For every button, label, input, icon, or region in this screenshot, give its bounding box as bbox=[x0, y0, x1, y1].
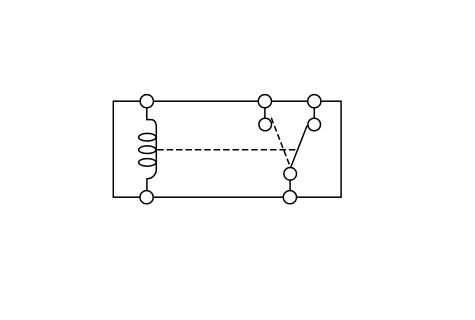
NO contact node bbox=[308, 118, 321, 131]
pin terminal P5 bottom right (common) bbox=[283, 191, 296, 204]
common pivot node bbox=[284, 168, 297, 181]
pin terminal P4 bottom left bbox=[140, 191, 153, 204]
coil L1 loop 1 bbox=[139, 133, 156, 141]
pin terminal P1 top left bbox=[140, 95, 153, 108]
relay body outline bbox=[113, 101, 341, 197]
mechanical linkage dashed line from coil to armature bbox=[158, 149, 298, 151]
wire coil lead from pin 1 through coil to pin 2 bbox=[147, 101, 157, 197]
wire NO contact stem bbox=[313, 101, 315, 124]
switch armature alternate position (dashed, to NC contact) bbox=[272, 118, 290, 164]
switch armature blade (solid, to NO contact) bbox=[291, 126, 307, 167]
NC contact node bbox=[259, 118, 272, 131]
wire NC contact stem bbox=[264, 101, 266, 124]
coil L1 loop 2 bbox=[139, 146, 156, 154]
pin terminal P3 top right bbox=[308, 95, 321, 108]
coil L1 loop 3 bbox=[139, 159, 156, 167]
wire common stem bbox=[289, 174, 291, 197]
pin terminal P2 top middle bbox=[258, 95, 271, 108]
